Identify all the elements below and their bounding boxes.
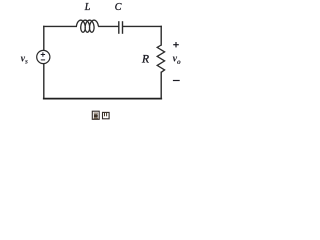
svg-text:C: C (115, 2, 122, 13)
svg-text:R: R (141, 53, 149, 65)
svg-text:L: L (84, 2, 91, 13)
svg-text:vo: vo (173, 53, 181, 65)
svg-text:vs: vs (21, 53, 28, 65)
